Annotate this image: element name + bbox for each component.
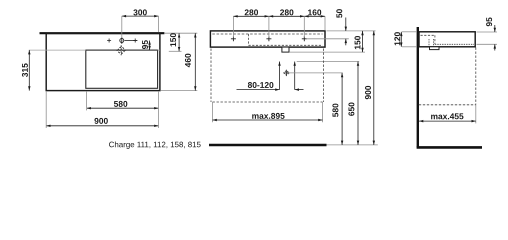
dim label 900 plan xyxy=(94,118,107,124)
basin outline (front) xyxy=(210,31,325,47)
dim label 580 height xyxy=(332,104,338,117)
dim 300 extension right xyxy=(158,16,160,32)
extension outlet to 580 xyxy=(289,72,343,74)
dim label 150 plan xyxy=(170,33,176,46)
furniture zone dashed left (front) xyxy=(210,49,212,103)
max.895 extension left xyxy=(212,102,214,122)
supply pipe left xyxy=(279,62,281,90)
dim 80-120 left line xyxy=(237,89,280,91)
rear edge extension right (plan) xyxy=(165,32,198,34)
furniture zone dashed right (side) xyxy=(475,48,477,105)
extension stub bottom xyxy=(290,51,365,53)
dim label 120 xyxy=(394,32,400,45)
dim 150 front line xyxy=(362,31,364,52)
dim 150 plan line xyxy=(178,33,180,51)
dim 580 plan line xyxy=(87,107,159,109)
max.895 extension right xyxy=(322,102,324,122)
wire tap to cross xyxy=(125,40,138,42)
dim label 650 height xyxy=(348,102,354,115)
dim 280 left line xyxy=(233,15,269,17)
dim label 280 right xyxy=(280,9,293,15)
dim label 150 front xyxy=(355,36,361,49)
dim max.895 line xyxy=(213,119,323,121)
hidden bowl step vertical (front) xyxy=(248,34,250,45)
dim 300 line xyxy=(122,15,159,17)
hidden rim line (front) xyxy=(212,33,322,35)
extension tap middle xyxy=(268,16,270,37)
max.455 extension right xyxy=(475,105,477,124)
drain trap stub (front) xyxy=(282,47,289,52)
dim label 50 xyxy=(336,9,342,18)
dim 300 extension left xyxy=(121,16,123,38)
caption Charge 111, 112, 158, 815 xyxy=(109,141,201,148)
extension tap right xyxy=(303,16,305,37)
hidden drain right (side) xyxy=(433,39,435,46)
dim 120 extension bottom xyxy=(402,46,417,48)
tap hole cross middle (front) xyxy=(266,36,271,41)
dim 95 plan line xyxy=(149,41,151,51)
bowl edge extension line xyxy=(29,49,86,51)
hidden bowl wall (side) xyxy=(434,35,436,44)
hidden bowl bottom (side) xyxy=(435,43,474,45)
dim 315 line xyxy=(28,50,30,91)
dim 650 height line xyxy=(357,62,359,145)
dim 900 extension left xyxy=(45,91,47,128)
tap hole cross left (front) xyxy=(231,36,236,41)
dim label max.455 xyxy=(431,113,463,119)
dim label 160 xyxy=(308,9,321,15)
hidden bowl bottom (front) xyxy=(249,44,323,46)
hidden rim (side) xyxy=(421,34,435,36)
dim 50 upper arrow xyxy=(345,18,347,31)
tap hole cross right (front) xyxy=(302,36,307,41)
extension from right tap xyxy=(306,38,349,40)
drain trap stub (side) xyxy=(430,47,440,50)
wall line behind basin (plan) xyxy=(40,32,165,34)
dim label 460 xyxy=(185,54,191,68)
bowl outline (plan) xyxy=(86,50,158,88)
dim 80-120 right line xyxy=(295,89,304,91)
drain hole hidden (plan) xyxy=(116,45,126,55)
drain outlet symbol xyxy=(283,70,289,76)
hidden drain left (side) xyxy=(428,39,430,46)
dim 900 height line xyxy=(373,31,375,145)
dim 900/580 extension right xyxy=(158,91,160,128)
dim label 280 left xyxy=(245,9,258,15)
basin outline (side) xyxy=(419,32,475,47)
dim 160 line xyxy=(304,15,325,17)
front edge extension right (plan) xyxy=(160,90,197,92)
dim label 95 plan xyxy=(142,40,148,49)
furniture zone dashed bottom (front) xyxy=(213,101,323,103)
extension basin right edge xyxy=(324,16,326,30)
dim 120 line xyxy=(400,32,402,47)
dim 95 side extension top xyxy=(477,31,498,33)
furniture zone dashed right (front) xyxy=(323,49,325,103)
floor line (side) xyxy=(417,146,482,149)
dim 900 plan line xyxy=(46,125,158,127)
left tap position cross xyxy=(107,39,111,43)
supply pipe right xyxy=(294,62,296,90)
wall line (side) xyxy=(417,27,419,147)
dim label 900 height xyxy=(365,86,371,99)
basin outline (plan) xyxy=(46,33,160,90)
dim 95 side lower arrow xyxy=(494,44,496,50)
dim 95 side upper arrow xyxy=(494,25,496,32)
bowl rear extension tick xyxy=(169,50,182,52)
extension supply to 650 xyxy=(297,61,360,63)
dim 95 side extension bottom xyxy=(477,43,498,45)
tap hole (plan) xyxy=(120,37,124,44)
dim 280 right line xyxy=(269,15,304,17)
dim label 95 side xyxy=(486,17,492,26)
dim 580 height line xyxy=(341,73,343,145)
dim 50 lower arrow xyxy=(345,39,347,46)
dim 580 extension xyxy=(86,91,88,110)
floor extension thin xyxy=(327,144,378,146)
furniture zone dashed bottom (side) xyxy=(419,104,476,106)
dim label max.895 xyxy=(252,113,284,119)
right tap position cross xyxy=(133,39,137,43)
dim label 580 plan xyxy=(114,101,127,107)
extension tap left xyxy=(232,16,234,37)
dim max.455 line xyxy=(419,120,476,122)
floor line (front) xyxy=(209,144,327,147)
dim 120 extension top xyxy=(402,31,417,33)
dim 460 line xyxy=(194,33,196,90)
dim label 300 xyxy=(133,9,146,15)
extension basin top right xyxy=(327,30,376,32)
dim label 315 xyxy=(22,63,28,77)
dim label 80-120 xyxy=(248,82,274,88)
